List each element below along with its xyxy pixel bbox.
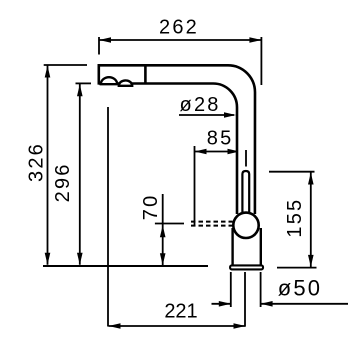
arrow 221 right [234, 323, 246, 329]
dim 262 left tick [98, 37, 100, 55]
dia50 left extension [230, 272, 232, 307]
faucet spout inner outline [99, 84, 237, 215]
counter line [43, 265, 208, 267]
arrow 326 up [45, 66, 51, 78]
arrow 70 down [160, 253, 166, 265]
svg-text:85: 85 [207, 128, 234, 150]
arrow 155 up [308, 173, 314, 185]
aerator dome 2 [119, 80, 132, 85]
lever axis tick [245, 150, 247, 167]
dia28 leader [179, 114, 234, 116]
dim 262 line [99, 39, 261, 41]
faucet body [233, 228, 261, 265]
spout head divider [144, 65, 147, 83]
svg-text:ø28: ø28 [180, 94, 221, 116]
dim 221 line [109, 325, 246, 327]
dim 155 top extension [269, 171, 315, 173]
arrow 85 left [195, 149, 207, 155]
dim 296 extension [76, 82, 92, 84]
arrow dia28 [224, 112, 236, 118]
arrow 296 up [77, 84, 83, 96]
dia50 right leader [261, 303, 348, 305]
arrow 70 up [160, 225, 166, 237]
svg-text:221: 221 [164, 301, 197, 323]
dim 326 extension [44, 64, 87, 66]
lever rod [242, 171, 249, 212]
lever dashed upper [191, 221, 233, 223]
ball joint circle [233, 213, 258, 238]
svg-text:70: 70 [140, 194, 162, 221]
svg-text:326: 326 [25, 142, 47, 182]
svg-text:ø50: ø50 [278, 275, 323, 300]
arrow 155 down [308, 255, 314, 267]
dim 221 left extension [107, 107, 109, 327]
dim 85 left extension [194, 146, 196, 227]
dim 296 line [79, 84, 81, 265]
arrow 262 right [249, 37, 261, 43]
dim 262 right extension [260, 37, 262, 85]
arrow dia50 left [219, 301, 231, 307]
svg-text:296: 296 [52, 162, 74, 202]
svg-text:155: 155 [284, 198, 306, 238]
arrow dia50 right [261, 301, 273, 307]
faucet spout outer outline [99, 65, 255, 214]
dim 70 line [162, 194, 164, 265]
dim 155 line [310, 172, 312, 267]
dia50 left leader [212, 303, 231, 305]
center line base [244, 272, 246, 327]
arrow 85 right [228, 149, 240, 155]
arrow 221 left [109, 323, 121, 329]
lever dashed lower [191, 225, 233, 227]
svg-text:262: 262 [159, 17, 199, 39]
dim 70 tick [155, 223, 184, 225]
dia50 right extension [260, 272, 262, 307]
arrow 326 down [45, 253, 51, 265]
base flange [230, 265, 263, 269]
faucet spout fill [99, 65, 255, 214]
dim 85 line [195, 151, 240, 153]
arrow 262 left [99, 37, 111, 43]
dim 155 bottom extension [277, 267, 317, 269]
aerator dome 1 [101, 77, 117, 84]
arrow 296 down [77, 253, 83, 265]
dim 326 line [47, 66, 49, 265]
